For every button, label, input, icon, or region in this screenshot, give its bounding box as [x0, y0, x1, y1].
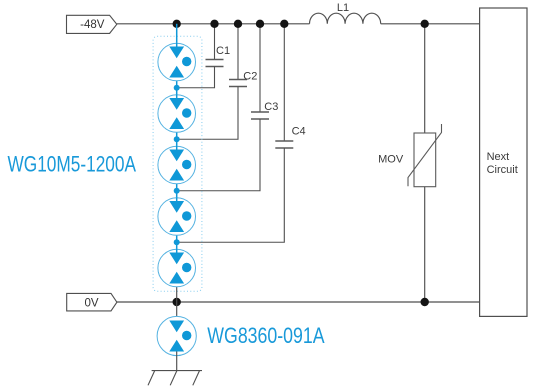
arrester device WG8360-091A: [157, 316, 196, 355]
svg-text:-48V: -48V: [80, 19, 105, 31]
svg-text:WG8360-091A: WG8360-091A: [207, 324, 325, 348]
arrester device 1: [158, 43, 196, 81]
arrester device 5: [158, 249, 196, 287]
ground (chassis): [148, 371, 202, 386]
junction bottom rail at MOV: [421, 298, 429, 306]
net label 0V: [67, 293, 117, 311]
junction between device 4 and 5: [174, 239, 180, 245]
junction top rail at C3: [256, 20, 264, 28]
svg-text:0V: 0V: [84, 297, 98, 309]
wire top rail left segment: [117, 23, 310, 25]
junction top rail at C1: [210, 20, 218, 28]
junction bottom rail at device column: [173, 298, 181, 306]
wire bottom rail: [117, 301, 480, 303]
box Next Circuit: [480, 8, 527, 316]
capacitor C1: [177, 24, 224, 88]
svg-text:WG10M5-1200A: WG10M5-1200A: [8, 153, 137, 178]
svg-text:C1: C1: [216, 45, 230, 57]
MOV varistor: [408, 24, 442, 302]
svg-text:MOV: MOV: [378, 153, 404, 165]
wire gray stack bottom: [176, 287, 178, 321]
arrester device 2: [158, 95, 196, 133]
svg-text:L1: L1: [337, 2, 349, 14]
arrester device 3: [158, 146, 196, 184]
dotted enclosure of arrester stack: [153, 36, 202, 291]
svg-text:C3: C3: [264, 101, 278, 113]
svg-text:C4: C4: [292, 125, 306, 137]
inductor L1: [310, 13, 381, 24]
junction between device 2 and 3: [174, 136, 180, 142]
svg-text:Next: Next: [487, 151, 510, 163]
junction top rail at device column: [173, 20, 181, 28]
capacitor C3: [177, 24, 269, 191]
svg-text:C2: C2: [243, 71, 257, 83]
junction top rail at C4: [280, 20, 288, 28]
svg-text:Circuit: Circuit: [487, 164, 518, 176]
capacitor C2: [177, 24, 247, 139]
wire top rail right segment: [381, 23, 480, 25]
junction top rail at MOV: [421, 20, 429, 28]
wire blue stack column: [176, 24, 178, 287]
junction between device 3 and 4: [174, 188, 180, 194]
junction between device 1 and 2: [174, 85, 180, 91]
junction top rail at C2: [234, 20, 242, 28]
capacitor C4: [177, 24, 294, 242]
net label -48V: [67, 15, 117, 33]
arrester device 4: [158, 198, 196, 236]
wire device to ground: [176, 352, 178, 371]
